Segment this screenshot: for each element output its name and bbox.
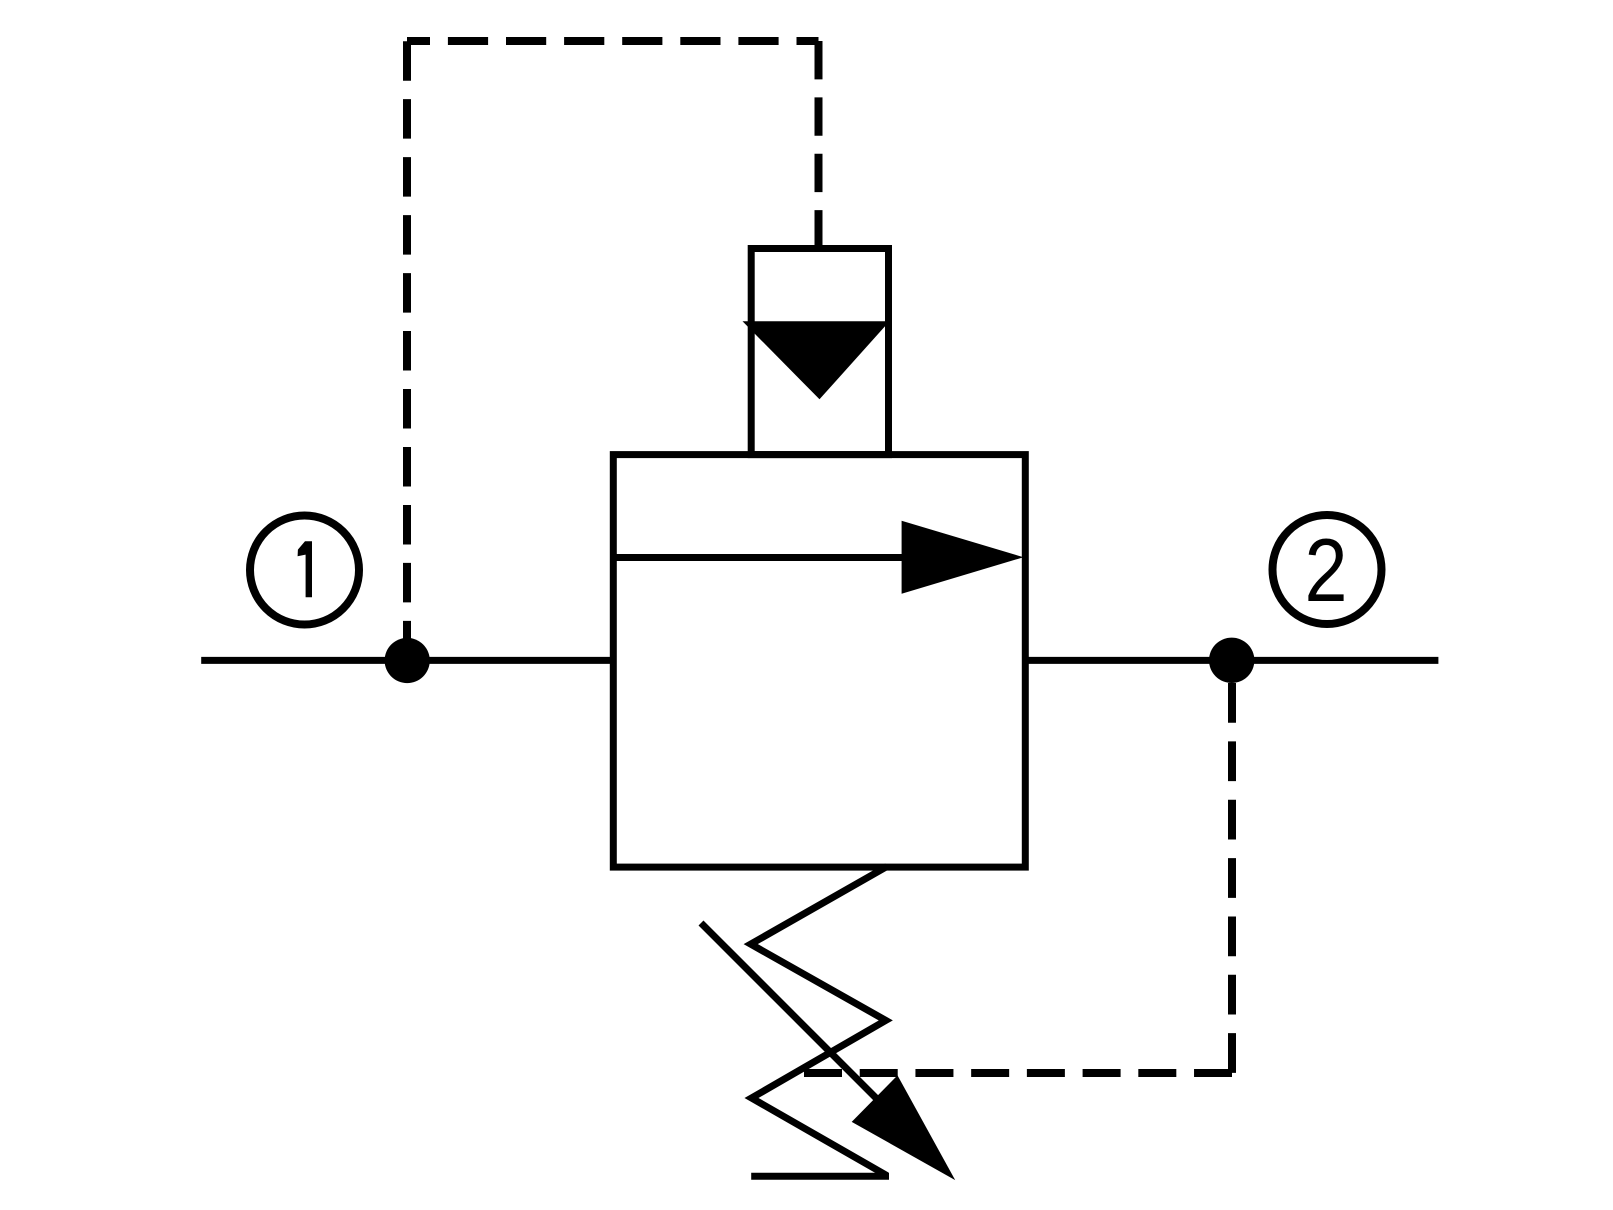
wire port 2 line <box>1025 657 1438 664</box>
spring <box>751 867 887 1176</box>
pilot section rectangle <box>751 249 888 455</box>
wire port 1 line <box>201 657 613 664</box>
node 2 junction dot <box>1209 638 1254 683</box>
port label circle 2 <box>1273 515 1382 624</box>
port label circle 1 <box>250 516 359 625</box>
adjustment arrow <box>701 923 955 1180</box>
pilot check triangle <box>743 321 890 399</box>
drain dashed horizontal to spring <box>804 1069 1232 1077</box>
spring end bar <box>751 1173 889 1180</box>
flow path arrow <box>613 521 1023 594</box>
port label text 1 <box>298 541 312 597</box>
node 1 junction dot <box>385 638 430 683</box>
svg-text:2: 2 <box>1305 520 1348 620</box>
pilot line dashed stub to pilot top <box>815 41 823 249</box>
valve body V1 <box>613 455 1025 867</box>
pilot line dashed vertical from node 1 <box>403 41 411 660</box>
drain dashed vertical from node 2 <box>1228 683 1236 1073</box>
pilot line dashed horizontal top run <box>407 37 819 45</box>
